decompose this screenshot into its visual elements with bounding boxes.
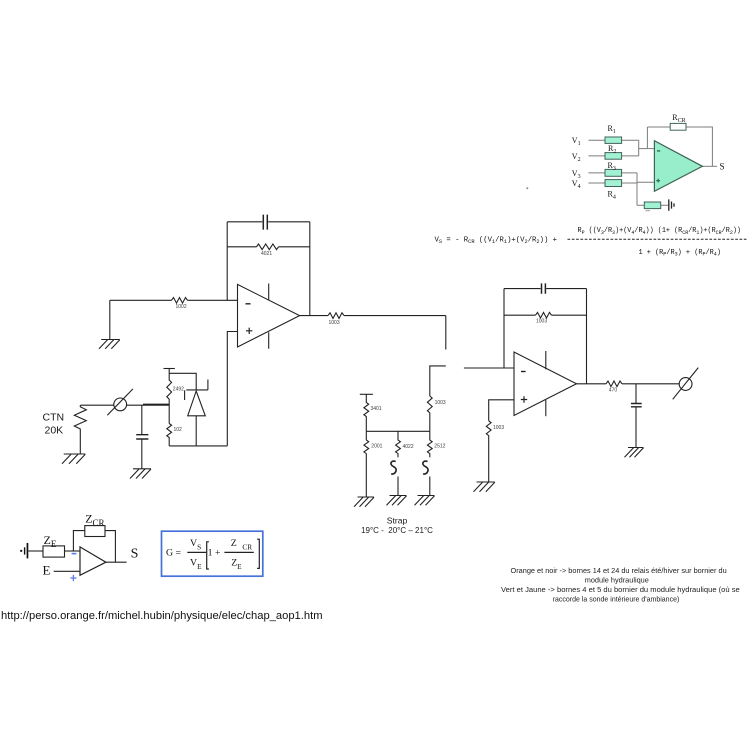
svg-text:module hydraulique: module hydraulique bbox=[585, 575, 649, 584]
resistor RCR box bbox=[670, 123, 686, 130]
capacitor C2 plates bbox=[136, 435, 148, 439]
wire: U2 output bbox=[577, 383, 680, 385]
impedance ZE box bbox=[43, 546, 65, 557]
formula fraction bar ZCR/ZE bbox=[224, 551, 253, 553]
A1 minus mark bbox=[657, 150, 660, 152]
svg-text:Vert et Jaune -> bornes 4 et 5: Vert et Jaune -> bornes 4 et 5 du bornie… bbox=[501, 585, 740, 594]
resistor R 4021 feedback bbox=[227, 246, 310, 248]
wire: ZE to op-amp U3 bbox=[65, 550, 81, 552]
resistor R 1002 bbox=[172, 298, 188, 304]
wire: V1 input bbox=[588, 139, 638, 141]
impedance ZCR box bbox=[85, 526, 105, 537]
svg-text:S: S bbox=[720, 162, 725, 172]
svg-text:4022: 4022 bbox=[403, 444, 414, 450]
svg-text:CTN: CTN bbox=[43, 412, 65, 424]
op-amp U3 bbox=[80, 547, 106, 575]
formula fraction bar VS/VE bbox=[187, 551, 206, 553]
resistor R 2512 bbox=[427, 431, 432, 457]
U2 top power pin bbox=[545, 351, 547, 369]
wire: top link to zener bbox=[169, 373, 196, 390]
resistor R 2492 bbox=[167, 369, 172, 424]
Rp ghost mark bbox=[646, 210, 651, 212]
svg-text:1002: 1002 bbox=[176, 304, 187, 310]
ground (C4) bbox=[625, 448, 644, 458]
resistor R 4022 bbox=[396, 431, 401, 457]
resistor R2 box bbox=[605, 153, 622, 160]
ground (A1, right pointing) bbox=[669, 199, 674, 210]
svg-text:1003: 1003 bbox=[493, 425, 504, 431]
svg-text:raccorde la sonde intérieure d: raccorde la sonde intérieure d'ambiance) bbox=[553, 596, 680, 603]
U2 bottom power pin bbox=[545, 400, 547, 416]
wire: V3 input bbox=[588, 172, 637, 174]
ground (2512) bbox=[415, 496, 435, 506]
wire: diode anode to rail bbox=[195, 416, 197, 446]
zener diode D1 cathode bar bbox=[185, 380, 208, 401]
op-amp U1 bbox=[238, 284, 300, 347]
capacitor C3 plates bbox=[542, 283, 546, 293]
capacitor C1 plates bbox=[263, 215, 267, 230]
wire: U2 feedback right vertical bbox=[586, 289, 588, 384]
ground (input) bbox=[99, 340, 120, 349]
svg-text:2492: 2492 bbox=[173, 387, 184, 393]
wire: strap bus bbox=[366, 430, 430, 432]
U2 plus input mark bbox=[521, 396, 527, 402]
U1 minus input mark bbox=[246, 303, 251, 305]
svg-text:102: 102 bbox=[174, 427, 183, 433]
svg-text:4021: 4021 bbox=[261, 251, 272, 257]
svg-text:V2: V2 bbox=[572, 152, 581, 163]
wire: E input bbox=[54, 570, 80, 572]
svg-text:19°C - 20°C – 21°C: 19°C - 20°C – 21°C bbox=[361, 526, 433, 535]
wire: R3-R4 node vertical to Rp bbox=[636, 173, 638, 205]
wire: node to minus input bbox=[639, 148, 655, 150]
wire: divider to bus bbox=[429, 413, 431, 432]
terminal T-bar 2492 bbox=[164, 368, 175, 370]
wire: sensor bottom rail bbox=[169, 445, 227, 447]
resistor Rp box bbox=[644, 202, 660, 209]
wire: output capacitor branch bbox=[635, 384, 637, 403]
formula bracket left bbox=[207, 542, 209, 569]
op-amp U2 bbox=[514, 352, 577, 416]
ground (C2) bbox=[130, 469, 151, 479]
op-amp A1 (teal) bbox=[654, 141, 702, 192]
formula bracket right bbox=[257, 539, 259, 568]
wire: feedback loop right vertical bbox=[309, 222, 311, 316]
wire: V4 input bbox=[588, 182, 637, 184]
svg-text:1 +: 1 + bbox=[208, 547, 221, 558]
wire: U3 output to S bbox=[106, 561, 127, 563]
svg-text:1003: 1003 bbox=[435, 400, 446, 406]
wire: capacitor to ground bbox=[141, 440, 143, 469]
thermistor CTN 20K bbox=[74, 405, 86, 454]
wire: jog piece to divider bbox=[430, 366, 446, 396]
wire: U2 feedback top with capacitor C3 bbox=[504, 288, 587, 290]
wire: output to S bbox=[702, 165, 717, 167]
strap squiggle S2 bbox=[423, 461, 428, 474]
wire: ground to ZE bbox=[28, 550, 43, 552]
wire: RCR right to output bbox=[686, 127, 712, 166]
svg-text:1 + (RP/R3) + (RP/R4): 1 + (RP/R3) + (RP/R4) bbox=[639, 249, 722, 258]
resistor R3 box bbox=[605, 169, 622, 176]
wire: U2 plus input stub bbox=[489, 400, 514, 421]
wire: V2 input bbox=[588, 155, 638, 157]
svg-text:Z: Z bbox=[231, 538, 237, 549]
wire: feedback top with capacitor C1 bbox=[227, 221, 310, 223]
svg-text:V1: V1 bbox=[572, 136, 581, 147]
svg-text:1003: 1003 bbox=[329, 320, 340, 326]
terminal T-bar 3401 bbox=[360, 393, 373, 395]
svg-text:R4: R4 bbox=[608, 189, 616, 200]
potentiometer P2 arrow bbox=[673, 368, 699, 400]
A1 plus mark bbox=[656, 179, 660, 183]
svg-text:20K: 20K bbox=[45, 425, 64, 437]
ground (CTN) bbox=[62, 454, 85, 464]
svg-text:S: S bbox=[131, 546, 139, 561]
svg-text:Strap: Strap bbox=[387, 515, 408, 525]
svg-text:2512: 2512 bbox=[434, 444, 445, 450]
U1 plus input mark bbox=[246, 328, 252, 334]
svg-text:CR: CR bbox=[242, 543, 252, 552]
wire: down to input ground bbox=[109, 300, 111, 339]
resistor R 3401 bbox=[364, 394, 369, 431]
svg-text:3401: 3401 bbox=[371, 406, 382, 412]
svg-text:G =: G = bbox=[166, 547, 182, 558]
zener diode D1 body bbox=[188, 391, 206, 416]
svg-text:1003: 1003 bbox=[536, 319, 547, 325]
resistor R 2001 bbox=[364, 431, 369, 497]
resistor R 1003 output bbox=[328, 313, 344, 319]
U2 minus input mark bbox=[521, 371, 526, 373]
wire: U1 plus input stub bbox=[227, 332, 237, 446]
fraction bar dashed bbox=[568, 238, 748, 240]
resistor R 470 bbox=[606, 381, 622, 387]
resistor R 1003 vertical divider top bbox=[427, 396, 432, 413]
potentiometer P1 arrow bbox=[107, 389, 133, 415]
wire: inverting input line bbox=[110, 299, 238, 301]
formula frame (blue box) bbox=[162, 531, 263, 576]
U1 bottom power pin bbox=[268, 332, 270, 348]
ground (U2 plus) bbox=[474, 482, 495, 492]
svg-text:http://perso.orange.fr/michel.: http://perso.orange.fr/michel.hubin/phys… bbox=[1, 610, 323, 622]
svg-text:RP ((V3/R3)+(V4/R4)) (1+ (RCR/: RP ((V3/R3)+(V4/R4)) (1+ (RCR/R1)+(RCR/R… bbox=[578, 227, 742, 236]
mini schematic: chassis ground bbox=[20, 550, 22, 552]
wire: node to plus input bbox=[637, 181, 654, 183]
potentiometer P2 circle bbox=[679, 378, 692, 391]
wire: capacitor C4 to ground bbox=[635, 407, 637, 447]
svg-text:V4: V4 bbox=[572, 179, 581, 190]
svg-text:2001: 2001 bbox=[371, 444, 382, 450]
resistor R 1003 feedback U2 bbox=[504, 314, 587, 316]
resistor R 102 bbox=[167, 424, 172, 446]
svg-text:R1: R1 bbox=[608, 124, 616, 135]
wire: ZCR to output bbox=[105, 531, 115, 563]
wire: U2 inverting input bbox=[464, 367, 514, 369]
strap squiggle S1 bbox=[391, 461, 396, 474]
svg-text:Orange et noir -> bornes 14 et: Orange et noir -> bornes 14 et 24 du rel… bbox=[511, 566, 727, 575]
svg-text:RCR: RCR bbox=[672, 113, 685, 124]
svg-text:470: 470 bbox=[609, 388, 618, 394]
resistor R4 box bbox=[605, 180, 622, 187]
U3 plus mark (blue) bbox=[70, 575, 76, 581]
resistor R 1003 to ground bbox=[486, 421, 491, 482]
U1 top power pin bbox=[268, 284, 270, 301]
ground (2001) bbox=[354, 497, 374, 507]
U3 minus mark (blue) bbox=[72, 553, 77, 555]
wire: junction capacitor branch bbox=[141, 405, 143, 434]
wire: 2512 to ground bbox=[429, 477, 431, 496]
svg-text:ZE: ZE bbox=[44, 533, 57, 549]
wire: feedback tap vertical bbox=[646, 127, 648, 149]
wire: Rp leads bbox=[637, 204, 668, 206]
stray dot bbox=[526, 187, 528, 189]
capacitor C4 plates bbox=[631, 404, 642, 407]
wire: junction bold segment bbox=[143, 404, 169, 406]
wire: potentiometer to junction bbox=[127, 404, 143, 406]
wire: feedback loop left vertical bbox=[226, 222, 228, 300]
potentiometer P1 circle bbox=[114, 398, 127, 411]
wire: 4022 to ground bbox=[397, 477, 399, 496]
resistor R1 box bbox=[605, 137, 622, 143]
wire: output drop vertical (ends open) bbox=[445, 316, 447, 350]
wire: RCR left bbox=[647, 126, 670, 128]
wire: U1 output bbox=[300, 315, 446, 317]
wire: R1-R2 node vertical bbox=[638, 140, 640, 156]
ground (4022) bbox=[387, 496, 407, 506]
wire: CTN to potentiometer bbox=[80, 404, 113, 406]
wire: U2 feedback left vertical bbox=[503, 289, 505, 368]
svg-text:VS = - RCR ((V1/R1)+(V2/R2)): VS = - RCR ((V1/R1)+(V2/R2)) + bbox=[435, 236, 558, 245]
wire: feedback vertical ZCR bbox=[73, 531, 84, 551]
svg-text:E: E bbox=[43, 563, 51, 578]
